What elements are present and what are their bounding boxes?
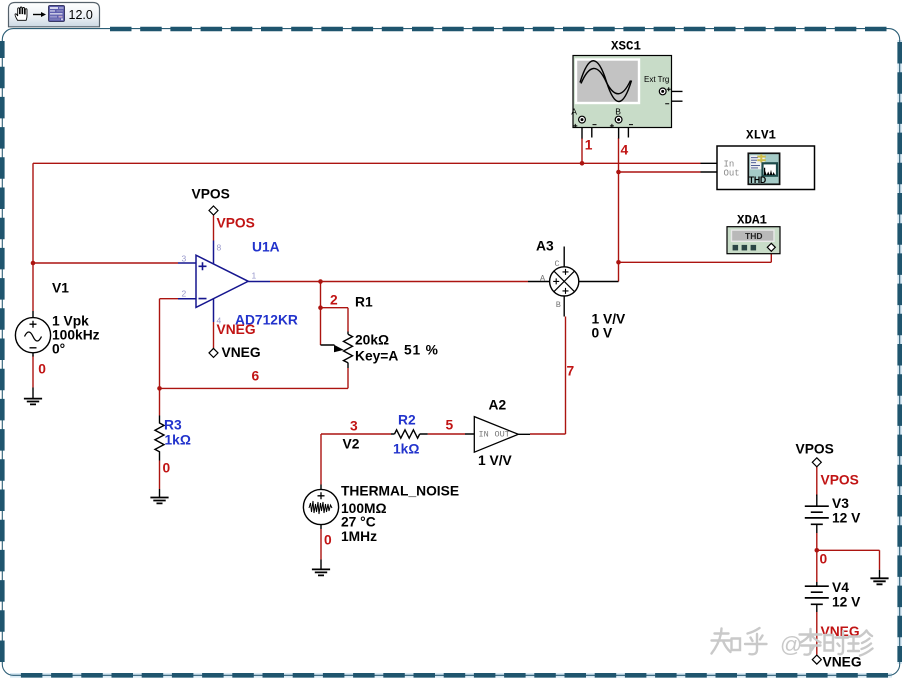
svg-text:V2: V2 <box>343 437 360 452</box>
svg-text:20kΩ: 20kΩ <box>355 333 389 348</box>
svg-text:12 V: 12 V <box>832 511 861 526</box>
svg-text:100kHz: 100kHz <box>52 328 100 343</box>
svg-text:5: 5 <box>446 418 454 433</box>
svg-text:U1A: U1A <box>252 240 280 255</box>
svg-text:4: 4 <box>621 143 629 158</box>
svg-text:6: 6 <box>252 369 260 384</box>
svg-text:3: 3 <box>182 254 187 264</box>
svg-text:IN: IN <box>479 430 489 440</box>
svg-text:2: 2 <box>182 289 187 299</box>
svg-text:V3: V3 <box>832 496 849 511</box>
svg-text:A2: A2 <box>489 398 507 413</box>
svg-text:C: C <box>555 259 560 269</box>
svg-text:AD712KR: AD712KR <box>235 313 298 328</box>
svg-text:Ext Trg: Ext Trg <box>644 75 669 84</box>
svg-text:1 Vpk: 1 Vpk <box>52 314 89 329</box>
svg-text:51 %: 51 % <box>404 343 439 358</box>
svg-text:4: 4 <box>217 316 222 326</box>
svg-text:A: A <box>540 274 546 284</box>
svg-text:B: B <box>556 300 561 310</box>
svg-text:VPOS: VPOS <box>796 442 834 457</box>
svg-text:V1: V1 <box>52 281 69 296</box>
svg-text:VPOS: VPOS <box>192 187 230 202</box>
svg-text:VPOS: VPOS <box>821 473 859 488</box>
svg-text:8: 8 <box>217 243 222 253</box>
svg-text:VPOS: VPOS <box>217 216 255 231</box>
svg-text:A3: A3 <box>536 239 554 254</box>
svg-text:THD: THD <box>749 175 766 185</box>
svg-text:THD: THD <box>745 231 762 241</box>
svg-text:Key=A: Key=A <box>355 349 398 364</box>
svg-text:XSC1: XSC1 <box>611 40 641 54</box>
svg-text:R3: R3 <box>164 418 182 433</box>
svg-text:3: 3 <box>350 419 358 434</box>
svg-text:XLV1: XLV1 <box>746 129 776 143</box>
svg-text:1MHz: 1MHz <box>341 529 377 544</box>
svg-text:OUT: OUT <box>495 430 510 440</box>
svg-text:7: 7 <box>567 364 575 379</box>
svg-text:R1: R1 <box>355 295 373 310</box>
svg-text:B: B <box>615 106 621 116</box>
svg-text:VNEG: VNEG <box>823 655 862 670</box>
svg-text:VNEG: VNEG <box>222 345 261 360</box>
svg-text:0: 0 <box>163 461 171 476</box>
svg-text:1: 1 <box>252 271 257 281</box>
svg-text:V4: V4 <box>832 580 849 595</box>
svg-text:0°: 0° <box>52 342 65 357</box>
svg-text:THERMAL_NOISE: THERMAL_NOISE <box>341 484 459 499</box>
svg-text:0: 0 <box>38 362 46 377</box>
svg-text:12 V: 12 V <box>832 595 861 610</box>
svg-text:0: 0 <box>324 533 332 548</box>
svg-text:1 V/V: 1 V/V <box>478 453 513 468</box>
svg-text:R2: R2 <box>398 413 416 428</box>
svg-text:12.0: 12.0 <box>69 8 93 22</box>
svg-text:Out: Out <box>724 169 740 179</box>
svg-text:0: 0 <box>820 552 828 567</box>
svg-text:1kΩ: 1kΩ <box>393 442 419 457</box>
svg-text:0 V: 0 V <box>592 326 614 341</box>
svg-text:XDA1: XDA1 <box>737 214 767 228</box>
svg-text:@: @ <box>780 632 802 657</box>
svg-text:1 V/V: 1 V/V <box>592 312 627 327</box>
svg-text:1kΩ: 1kΩ <box>165 433 191 448</box>
svg-text:27 °C: 27 °C <box>341 515 376 530</box>
svg-text:2: 2 <box>330 293 338 308</box>
svg-text:A: A <box>571 106 577 116</box>
svg-text:1: 1 <box>585 138 593 153</box>
